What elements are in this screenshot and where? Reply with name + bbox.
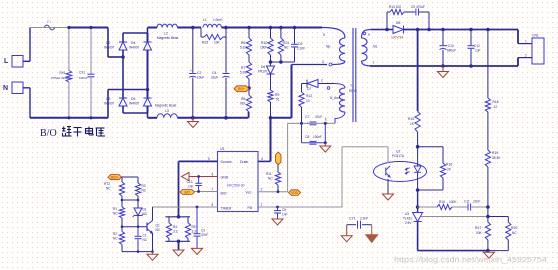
diode D6 FR107: [267, 73, 275, 75]
resistor R7 5.1M: [248, 55, 250, 62]
svg-text:C1: C1: [143, 234, 147, 238]
svg-text:L2: L2: [164, 32, 168, 36]
svg-text:R4: R4: [173, 225, 177, 229]
svg-text:C2: C2: [197, 71, 201, 75]
svg-text:R14: R14: [408, 117, 414, 121]
capacitor C4 22uF: [225, 28, 227, 73]
svg-text:R21: R21: [283, 41, 289, 45]
resistor R21 NC: [280, 28, 282, 39]
svg-text:L1: L1: [203, 18, 207, 22]
svg-text:R8: R8: [241, 97, 245, 101]
wire drain net: [269, 116, 273, 120]
ground CY1 secondary side solid: [371, 225, 373, 235]
svg-text:R22: R22: [202, 41, 208, 45]
svg-text:4: 4: [261, 157, 263, 161]
ground CY1 primary side: [346, 225, 348, 236]
svg-text:GND: GND: [221, 175, 229, 179]
svg-text:C3: C3: [201, 229, 205, 233]
svg-text:C13: C13: [187, 180, 193, 184]
svg-text:R1: R1: [113, 207, 117, 211]
ground output divider: [488, 251, 490, 252]
resistor R6 5.1M: [248, 28, 250, 39]
svg-text:R2: R2: [113, 232, 117, 236]
resistor R2 NC: [121, 227, 123, 232]
svg-text:12: 12: [494, 105, 498, 109]
svg-text:R11: R11: [266, 172, 272, 176]
wire clamp node: [270, 55, 272, 66]
wire output sense drop: [417, 30, 419, 112]
svg-text:R6: R6: [241, 41, 245, 45]
svg-text:RT2: RT2: [104, 182, 110, 186]
svg-text:8: 8: [212, 203, 214, 207]
inductor L2 magnetic bead: [148, 27, 158, 29]
svg-text:TL431: TL431: [403, 217, 412, 221]
capacitor C3 47nF: [196, 207, 198, 233]
ground C5: [272, 219, 283, 225]
opto light arrows: [405, 168, 410, 170]
svg-text:3.3: 3.3: [192, 230, 197, 234]
resistor R12 10: [299, 92, 304, 107]
snubber capacitor C9 470pF: [404, 11, 415, 13]
svg-text:R7: R7: [241, 66, 245, 70]
svg-text:D1: D1: [143, 208, 147, 212]
svg-text:Magnetic Bead: Magnetic Bead: [157, 36, 178, 40]
svg-text:10K: 10K: [476, 231, 483, 235]
opto emitter to ground: [387, 179, 389, 194]
svg-text:2: 2: [525, 53, 527, 57]
aux loop wires: [301, 123, 303, 142]
svg-text:NC: NC: [106, 187, 111, 191]
opto LED: [417, 147, 419, 166]
resistor R20 NC: [488, 216, 508, 218]
svg-text:Ns: Ns: [373, 45, 377, 49]
svg-text:9: 9: [368, 33, 370, 37]
opto phototransistor: [385, 168, 387, 176]
svg-text:D8: D8: [396, 21, 400, 25]
svg-text:R18: R18: [493, 100, 499, 104]
svg-text:NC: NC: [143, 238, 148, 242]
wire Q1 collector to TIMER: [152, 207, 154, 221]
svg-text:R10: R10: [261, 41, 267, 45]
shunt regulator U3 TL431 2.5V: [417, 207, 419, 213]
connector CN1: [532, 38, 544, 64]
snubber resistor R13 100: [386, 12, 388, 30]
wire aux supply node gray: [288, 122, 335, 124]
svg-text:B/O: B/O: [40, 128, 57, 139]
svg-text:C6: C6: [298, 42, 302, 46]
resistor R9 51: [268, 90, 273, 102]
wire TL431 ref: [421, 216, 488, 218]
resistor R3 NC: [137, 177, 139, 183]
wire primary ground rail: [177, 117, 248, 119]
svg-text:2: 2: [321, 79, 323, 83]
svg-text:NC: NC: [156, 228, 161, 232]
svg-text:275Vac Varistor: 275Vac Varistor: [51, 76, 71, 80]
svg-text:1nF: 1nF: [188, 185, 194, 189]
svg-text:R20: R20: [511, 226, 517, 230]
svg-text:R19: R19: [492, 151, 498, 155]
resistor R16 2K: [418, 146, 443, 148]
svg-text:N: N: [3, 85, 8, 92]
svg-text:100K: 100K: [449, 200, 457, 204]
svg-text:R15: R15: [439, 200, 445, 204]
svg-text:TIMER: TIMER: [221, 206, 232, 210]
svg-text:PC817A: PC817A: [392, 154, 405, 158]
capacitor C10 680uF: [442, 30, 444, 46]
capacitor C1 NC: [137, 227, 139, 236]
text chinese char 端: [62, 127, 72, 137]
svg-text:FR107: FR107: [258, 70, 268, 74]
svg-text:C11: C11: [464, 200, 470, 204]
svg-text:D3: D3: [106, 97, 110, 101]
transformer secondary winding Ns: [362, 38, 368, 61]
svg-text:47nF: 47nF: [201, 233, 208, 237]
svg-text:Magnetic Bead: Magnetic Bead: [155, 104, 176, 108]
svg-text:2.2nF: 2.2nF: [297, 47, 305, 51]
svg-text:U3: U3: [405, 212, 409, 216]
N terminal: [12, 82, 23, 94]
svg-text:C7: C7: [305, 115, 309, 119]
svg-text:+: +: [190, 69, 192, 73]
svg-text:NC: NC: [512, 231, 517, 235]
wire top rail to bridge: [30, 27, 69, 29]
ground R4 R5: [173, 250, 184, 256]
svg-text:L3: L3: [165, 109, 169, 113]
svg-text:22nF: 22nF: [473, 200, 480, 204]
wire FB net: [258, 206, 342, 208]
svg-text:R13 100: R13 100: [389, 5, 401, 9]
svg-text:680uF: 680uF: [447, 49, 456, 53]
svg-text:N_Aux: N_Aux: [330, 96, 340, 100]
diode D8 100V/3A: [403, 26, 405, 34]
svg-text:U1: U1: [220, 147, 225, 151]
svg-text:C5: C5: [282, 208, 286, 212]
svg-text:HFC500-30: HFC500-30: [227, 184, 245, 188]
svg-text:2.5V: 2.5V: [405, 221, 412, 225]
svg-text:Drain: Drain: [240, 160, 248, 164]
svg-text:91K: 91K: [240, 102, 247, 106]
svg-text:47uF: 47uF: [315, 115, 322, 119]
ground secondary: [442, 66, 444, 72]
resistor R22 10K: [200, 28, 202, 38]
resistor R1 NC: [119, 207, 124, 218]
svg-text:R9: R9: [275, 93, 279, 97]
capacitor C12 1uF: [470, 30, 472, 46]
wire output divider: [487, 30, 489, 99]
svg-text:B/O+: B/O+: [111, 175, 118, 179]
wire source pin: [179, 160, 218, 162]
wire secondary ground rail: [370, 65, 518, 67]
svg-text:100nF: 100nF: [79, 76, 88, 80]
svg-text:D4: D4: [131, 41, 135, 45]
wire cluster bottom node: [122, 251, 153, 253]
varistor RV1: [68, 28, 70, 71]
svg-text:CN1: CN1: [532, 34, 539, 38]
wire TIMER pin: [152, 206, 218, 208]
svg-text:Q1: Q1: [156, 224, 160, 228]
svg-text:5.1M: 5.1M: [240, 71, 247, 75]
svg-text:IN4007: IN4007: [129, 46, 140, 50]
resistor R8 91K: [246, 95, 251, 112]
transformer T1 EE19 primary winding Np: [322, 28, 345, 39]
svg-text:1.0mH: 1.0mH: [213, 18, 223, 22]
diode D4 bridge: [147, 33, 149, 42]
svg-text:B/O: B/O: [185, 190, 191, 194]
svg-text:D6: D6: [261, 65, 265, 69]
svg-text:NC: NC: [142, 189, 147, 193]
svg-text:10: 10: [306, 99, 310, 103]
capacitor C5 1nF on FB: [276, 206, 279, 209]
resistor R11 NC: [276, 152, 282, 165]
svg-text:RV1: RV1: [60, 71, 66, 75]
svg-text:D2: D2: [106, 41, 110, 45]
svg-text:38.3K: 38.3K: [492, 156, 501, 160]
svg-text:+: +: [307, 122, 309, 126]
svg-text:FB: FB: [248, 206, 253, 210]
svg-text:100V/3A: 100V/3A: [391, 36, 404, 40]
svg-text:VDD: VDD: [291, 191, 298, 195]
svg-text:Np: Np: [326, 45, 330, 49]
wire to connector CN1: [517, 30, 519, 44]
diode D5 bridge: [147, 50, 149, 98]
svg-text:R3: R3: [142, 184, 146, 188]
text chinese char 压: [96, 128, 106, 136]
thermistor RT2 NC: [121, 177, 123, 182]
svg-text:Source: Source: [221, 160, 232, 164]
wire drain pin stub: [258, 160, 271, 162]
ic U1 HFC500-30: [218, 152, 259, 212]
svg-text:Vcc: Vcc: [246, 191, 252, 195]
bridge tie wires: [123, 32, 148, 34]
wire bottom rail input side: [30, 117, 108, 119]
svg-text:B/O: B/O: [221, 192, 227, 196]
diode D7: [306, 80, 308, 88]
svg-text:2: 2: [261, 187, 263, 191]
transformer core: [352, 28, 354, 122]
svg-text:CY1: CY1: [349, 216, 356, 220]
svg-text:F1: F1: [47, 20, 51, 24]
resistors R4 R5 current sense: [177, 215, 181, 219]
capacitor C6 2.2nF: [294, 28, 296, 44]
svg-text:BO+: BO+: [238, 87, 245, 91]
ground cluster: [152, 252, 154, 254]
svg-text:1uF: 1uF: [475, 49, 481, 53]
ground C3: [192, 248, 203, 254]
transistor Q1 NC: [146, 223, 148, 232]
svg-text:D5: D5: [131, 97, 135, 101]
capacitor CX1: [90, 28, 92, 75]
svg-text:NC: NC: [143, 212, 148, 216]
wire B/O pin with net label: [195, 191, 218, 193]
wire Vcc pin to VDD label: [258, 191, 288, 193]
svg-text:10K: 10K: [214, 41, 221, 45]
svg-text:NC: NC: [268, 177, 273, 181]
svg-text:5: 5: [323, 33, 325, 37]
svg-text:10uF: 10uF: [197, 76, 204, 80]
wire GND pin with offpage arrow: [189, 176, 218, 178]
fuse F1: [44, 25, 55, 30]
svg-text:C4: C4: [212, 71, 216, 75]
svg-text:3: 3: [322, 60, 324, 64]
svg-text:IN4007: IN4007: [129, 102, 140, 106]
svg-text:R17: R17: [475, 226, 481, 230]
svg-text:5: 5: [208, 157, 210, 161]
svg-text:U2: U2: [396, 150, 400, 154]
zener diode D1 NC: [137, 200, 139, 208]
svg-text:D7: D7: [307, 87, 311, 91]
svg-text:https://blog.csdn.net/weixin_4: https://blog.csdn.net/weixin_45925754: [394, 255, 547, 264]
transformer aux winding N_Aux: [334, 84, 345, 89]
resistor R18 12: [485, 98, 490, 112]
inductor L3 magnetic bead: [148, 117, 158, 119]
text chinese char 子: [74, 128, 82, 137]
svg-text:IN4007: IN4007: [104, 102, 115, 106]
svg-text:1nF: 1nF: [282, 213, 288, 217]
svg-text:150K: 150K: [260, 46, 268, 50]
svg-text:22uF: 22uF: [211, 76, 218, 80]
resistor R19 38.3K: [485, 150, 490, 167]
text chinese char 电: [86, 127, 94, 136]
svg-text:C12: C12: [474, 44, 480, 48]
wire cluster mid node 2 to Q1 base: [122, 226, 147, 228]
diode D3 bridge: [122, 50, 124, 98]
wire TL431 anode return: [418, 250, 488, 252]
svg-text:+C10: +C10: [446, 44, 454, 48]
wire cluster mid node 1: [121, 196, 123, 207]
svg-text:C8: C8: [305, 135, 309, 139]
ground aux: [324, 143, 326, 146]
svg-text:L: L: [4, 58, 9, 65]
svg-text:51: 51: [276, 98, 280, 102]
svg-text:3.3: 3.3: [173, 230, 178, 234]
resistor R10 150K: [270, 28, 272, 39]
svg-text:R16: R16: [446, 163, 452, 167]
ground primary: [192, 118, 194, 122]
svg-text:7: 7: [373, 61, 375, 65]
svg-text:IN4007: IN4007: [104, 46, 115, 50]
svg-text:EE19: EE19: [349, 89, 357, 93]
svg-text:R12: R12: [306, 94, 312, 98]
wire secondary output rail: [380, 29, 393, 31]
node BO divider with net label: [248, 79, 250, 95]
diode D2 bridge: [122, 33, 124, 42]
svg-text:R5: R5: [192, 225, 196, 229]
wire R15 C11 compensation: [418, 206, 437, 208]
wire opto output to TL431: [417, 190, 419, 207]
svg-text:NC: NC: [113, 237, 118, 241]
wire L terminal to fuse: [12, 56, 23, 68]
wire Q1 emitter down: [152, 234, 154, 252]
svg-text:5.1M: 5.1M: [240, 46, 247, 50]
svg-text:C9 470uF: C9 470uF: [411, 5, 425, 9]
svg-text:100nF: 100nF: [313, 135, 322, 139]
resistor R14 1K: [415, 111, 420, 132]
svg-text:NC: NC: [113, 212, 118, 216]
svg-text:2.2nF: 2.2nF: [360, 216, 368, 220]
capacitor C13 1nF: [198, 177, 200, 184]
resistor R17 10K: [485, 222, 490, 240]
net label left cluster: [108, 175, 122, 180]
svg-text:NC: NC: [284, 46, 289, 50]
capacitor C2 10uF: [192, 28, 194, 73]
svg-text:CX1: CX1: [79, 71, 85, 75]
svg-text:T1: T1: [350, 84, 354, 88]
svg-text:1: 1: [261, 203, 263, 207]
svg-text:1: 1: [525, 39, 527, 43]
